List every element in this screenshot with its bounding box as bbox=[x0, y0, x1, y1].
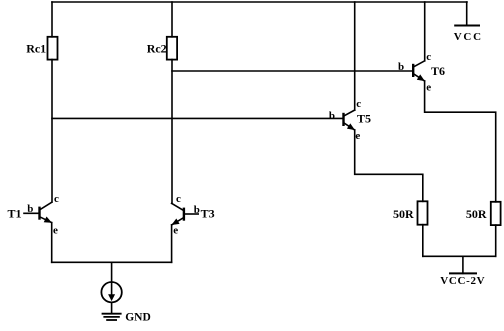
svg-text:c: c bbox=[356, 98, 361, 110]
ground bbox=[103, 314, 121, 320]
svg-text:b: b bbox=[194, 204, 200, 216]
transistor T5 bbox=[344, 110, 355, 130]
resistor Rc1 bbox=[48, 37, 58, 60]
svg-text:50R: 50R bbox=[466, 207, 487, 221]
power symbol VCC bar bbox=[455, 25, 479, 27]
wire current source bottom lead bbox=[111, 302, 113, 313]
svg-text:c: c bbox=[426, 51, 431, 63]
wire T5 emitter to left 50R bbox=[355, 130, 423, 201]
svg-text:50R: 50R bbox=[393, 207, 414, 221]
svg-text:e: e bbox=[426, 82, 431, 94]
resistor R1 50R left bbox=[418, 201, 428, 224]
power symbol VCC-2V bar bbox=[450, 272, 476, 274]
wire Rc1 top lead bbox=[51, 2, 53, 37]
svg-text:b: b bbox=[27, 203, 33, 215]
wire bottom rail emitters bbox=[52, 261, 172, 263]
wire bottom right rail bbox=[423, 255, 496, 257]
svg-text:VCC: VCC bbox=[454, 31, 483, 43]
transistor T1 bbox=[24, 202, 52, 222]
wire node base rail T6 bbox=[172, 70, 413, 72]
svg-text:b: b bbox=[329, 110, 335, 122]
wire node base rail T5 bbox=[52, 117, 344, 119]
transistor T6 bbox=[413, 61, 425, 81]
wire T6 collector drop bbox=[424, 2, 426, 61]
wire T6 emitter to right 50R bbox=[425, 81, 496, 202]
wire top rail bbox=[52, 1, 467, 3]
svg-text:e: e bbox=[173, 225, 178, 237]
wire Rc2 bottom to T3 collector bbox=[171, 60, 173, 204]
resistor R2 50R right bbox=[491, 202, 501, 225]
resistor Rc2 bbox=[167, 37, 177, 60]
wire left rail to T5 collector bbox=[354, 2, 356, 110]
svg-text:GND: GND bbox=[125, 312, 151, 324]
svg-text:VCC-2V: VCC-2V bbox=[440, 275, 485, 287]
svg-text:T5: T5 bbox=[357, 112, 371, 126]
wire Rc2 top lead bbox=[171, 2, 173, 37]
svg-text:Rc2: Rc2 bbox=[147, 42, 167, 56]
wire Rc1 bottom to T1 collector bbox=[51, 60, 53, 202]
svg-text:T3: T3 bbox=[201, 207, 215, 221]
svg-text:c: c bbox=[54, 193, 59, 205]
wire VCC-2V stub bbox=[462, 256, 464, 273]
svg-text:e: e bbox=[53, 225, 58, 237]
svg-text:b: b bbox=[398, 61, 404, 73]
wire right 50R bottom lead bbox=[495, 225, 497, 256]
wire T1 emitter bbox=[51, 223, 53, 263]
svg-text:Rc1: Rc1 bbox=[26, 42, 46, 56]
transistor T3 bbox=[172, 203, 199, 225]
wire current source top lead bbox=[111, 262, 113, 282]
svg-text:T1: T1 bbox=[8, 207, 22, 221]
current source I1 bbox=[101, 282, 121, 302]
svg-text:T6: T6 bbox=[431, 64, 445, 78]
svg-text:e: e bbox=[355, 130, 360, 142]
wire VCC drop bbox=[466, 2, 468, 26]
wire left 50R bottom lead bbox=[422, 225, 424, 257]
wire T3 emitter bbox=[171, 225, 173, 262]
svg-text:c: c bbox=[176, 193, 181, 205]
